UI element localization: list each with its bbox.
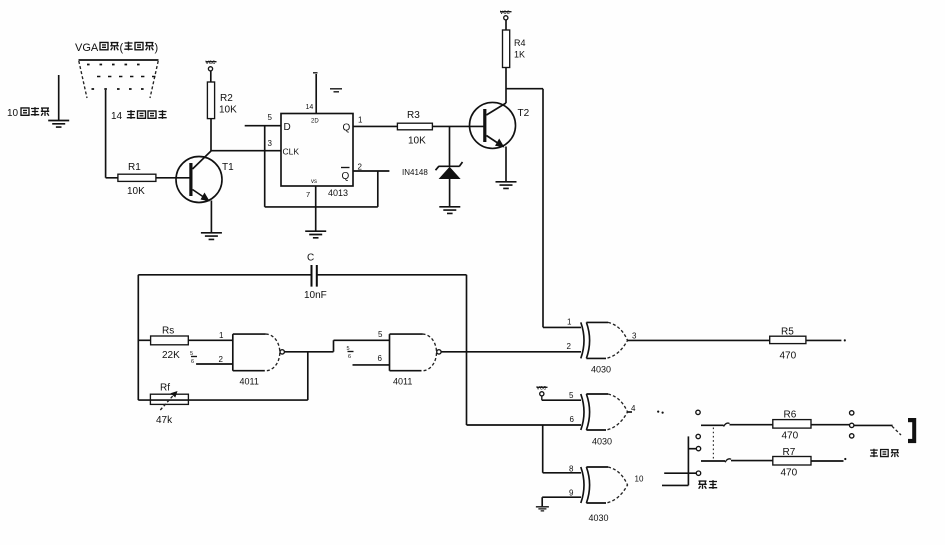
svg-text:6: 6 [378, 354, 383, 363]
svg-text:7: 7 [306, 190, 310, 199]
wire R7 right end [811, 458, 846, 461]
small mark 1/6 [190, 351, 197, 365]
resistor R7 470 [773, 447, 811, 479]
wire rail to Rs [138, 339, 150, 341]
power symbol [330, 89, 342, 92]
svg-text:470: 470 [781, 468, 798, 479]
resistor R1 10K [118, 162, 156, 197]
svg-text:3: 3 [268, 139, 273, 148]
wire 4013 pin7 to ground [315, 186, 317, 231]
pin 3 label [268, 139, 273, 148]
svg-text:vcc: vcc [206, 59, 217, 66]
svg-text:R7: R7 [783, 447, 796, 458]
wire R6 to right contacts [811, 424, 849, 426]
wire Qbar pin2 [353, 170, 389, 172]
svg-text:4030: 4030 [589, 513, 609, 523]
svg-text:4013: 4013 [328, 188, 348, 198]
svg-text:22K: 22K [162, 350, 180, 361]
resistor R2 10K [207, 82, 237, 119]
svg-text:T2: T2 [518, 108, 530, 119]
svg-text:9: 9 [569, 489, 574, 498]
wire Q pin1 to R3 [353, 125, 397, 127]
svg-text:R1: R1 [128, 162, 141, 173]
wire R1 to T1 base [156, 177, 190, 179]
svg-text:47k: 47k [156, 415, 173, 426]
svg-text:14: 14 [111, 111, 123, 122]
svg-text:1: 1 [567, 318, 572, 327]
wire bus tick to contact [688, 448, 696, 450]
svg-text:Q: Q [342, 171, 350, 182]
svg-text:5: 5 [569, 391, 574, 400]
power vcc [206, 59, 217, 82]
pin 8 label [569, 465, 574, 474]
pin 1 label [567, 318, 572, 327]
pin 2 label [219, 355, 224, 364]
svg-text:4011: 4011 [393, 377, 412, 387]
svg-text:vs: vs [311, 179, 317, 185]
wire R3 to T2 base [432, 125, 484, 127]
wire T1 emitter to ground [210, 201, 212, 233]
capacitor C 10nF [304, 253, 327, 302]
ground [48, 121, 69, 128]
resistor Rf 47k variable [150, 383, 188, 427]
diode D1 1N4148 [402, 126, 463, 206]
svg-text:470: 470 [780, 351, 797, 362]
ground [536, 507, 549, 511]
svg-text:vcc: vcc [537, 385, 548, 392]
wire XOR2 pin5 to vcc [542, 399, 581, 401]
wire gate2 pin6 [353, 364, 390, 366]
wire D pin 5 [245, 125, 281, 127]
svg-text:4030: 4030 [592, 437, 612, 447]
nand gate U2B 4011 [390, 334, 442, 386]
svg-text:6: 6 [191, 359, 194, 365]
pin 6 label [570, 415, 575, 424]
resistor Rs 22K [151, 326, 189, 362]
switch label [698, 480, 717, 489]
svg-text:10nF: 10nF [304, 290, 327, 301]
svg-text:D: D [284, 122, 291, 133]
svg-text:vcc: vcc [500, 9, 511, 16]
svg-text:10K: 10K [408, 136, 426, 147]
wire Rs to gate pin1 [188, 339, 233, 341]
svg-text:10: 10 [635, 475, 644, 484]
resistor R3 10K [397, 110, 432, 147]
pin 3 label [632, 332, 637, 341]
pin 10 label [635, 475, 644, 484]
wire pin10 to ground [58, 75, 60, 120]
svg-text:R4: R4 [514, 38, 526, 48]
wire switch bus [687, 436, 689, 485]
transistor T1 [176, 151, 234, 203]
switch S1 pole 1 [701, 423, 773, 426]
svg-text:Rf: Rf [160, 383, 170, 394]
wire C node down to XOR pin6 [467, 275, 582, 425]
LCD glasses electrode [908, 418, 916, 443]
svg-text:(: ( [120, 42, 124, 54]
xor gate U3B 4030 [581, 394, 628, 447]
svg-text:6: 6 [348, 354, 351, 360]
xor gate U3C 4030 [581, 467, 628, 523]
resistor R5 470 [770, 327, 806, 362]
pin 6 label [378, 354, 383, 363]
pin 5 label [268, 113, 273, 122]
wire feedback branch down [307, 352, 309, 400]
svg-text:5: 5 [268, 113, 273, 122]
wire XOR1 output to R5 [628, 339, 770, 341]
wire input to contact 4 [664, 472, 696, 474]
small mark 1/6 [347, 346, 354, 360]
wire XOR3 output [662, 484, 688, 486]
ground [439, 207, 460, 214]
wire gate1 output to gate2 pin5 [285, 340, 390, 352]
svg-text:1K: 1K [514, 50, 525, 60]
resistor R6 470 [773, 410, 811, 442]
xor gate U3A 4030 [581, 322, 628, 374]
svg-text:4011: 4011 [240, 377, 259, 387]
wire T2 collector to XOR pin1 [506, 89, 581, 328]
VGA pins row 2 [97, 76, 155, 78]
wire R2 to T1 collector / CLK [211, 119, 281, 151]
ground [305, 231, 326, 238]
svg-text:Q: Q [343, 123, 351, 134]
svg-text:4030: 4030 [591, 365, 611, 375]
svg-text:10: 10 [7, 108, 19, 119]
svg-text:2: 2 [358, 163, 363, 172]
pin 5 label [569, 391, 574, 400]
wire gate2 output to XOR1 pin2 [441, 351, 581, 353]
ground [201, 233, 222, 240]
switch linkage dotted [712, 428, 714, 459]
svg-text:1: 1 [358, 116, 363, 125]
svg-text:2D: 2D [311, 119, 319, 125]
svg-text:C: C [307, 253, 314, 264]
glasses label [870, 449, 899, 457]
ground [496, 182, 517, 189]
flip-flop U1 4013 [281, 104, 353, 199]
wire 4013 pin14 top [313, 73, 318, 114]
VGA connector J1 (VGA接口 显卡端) [75, 42, 159, 98]
svg-text:14: 14 [306, 104, 314, 111]
svg-text:2: 2 [567, 342, 572, 351]
pin 5 label [378, 330, 383, 339]
svg-text:6: 6 [570, 415, 575, 424]
power vcc [500, 9, 512, 30]
svg-text:T1: T1 [222, 162, 234, 173]
wire pin14 to R1 [106, 90, 118, 178]
pin 1 label [358, 116, 363, 125]
svg-text:R6: R6 [784, 410, 797, 421]
switch S1 pole 2 [701, 459, 773, 462]
svg-text:R2: R2 [220, 93, 233, 104]
node pin10 sync ground label [7, 107, 49, 119]
wire T2 emitter to ground [505, 147, 507, 182]
wire contact to glasses [854, 425, 901, 435]
svg-text:5: 5 [378, 330, 383, 339]
wire XOR3 pin9 to ground [542, 497, 581, 506]
switch contacts right [850, 411, 854, 438]
svg-text:VGA: VGA [75, 42, 99, 54]
svg-text:470: 470 [782, 431, 799, 442]
switch S1 contacts left [696, 410, 701, 475]
wire XOR2 pin6 branch to XOR3 pin8 [543, 425, 581, 473]
svg-text:8: 8 [569, 465, 574, 474]
wire R5 right [806, 339, 846, 341]
svg-text:10K: 10K [127, 186, 145, 197]
svg-text:R3: R3 [407, 110, 420, 121]
pin 2 label [567, 342, 572, 351]
pin 4 label [631, 404, 636, 413]
power vcc [537, 385, 548, 401]
svg-text:CLK: CLK [283, 147, 300, 157]
node pin14 vertical sync label [111, 110, 167, 122]
VGA pins row 1 [87, 64, 140, 66]
svg-text:R5: R5 [781, 327, 794, 338]
pin 9 label [569, 489, 574, 498]
svg-text:10K: 10K [219, 105, 237, 116]
pin 2 label [358, 163, 363, 172]
svg-text:1: 1 [219, 331, 224, 340]
svg-text:Rs: Rs [162, 326, 174, 337]
wire R4 to T2 collector [505, 68, 507, 104]
svg-text:IN4148: IN4148 [402, 168, 428, 177]
svg-text:): ) [155, 42, 159, 54]
wire gate pin2 [196, 363, 233, 365]
wire feedback Qbar to D [265, 126, 378, 207]
VGA pins row 3 [92, 88, 144, 90]
nand gate U2A 4011 [233, 334, 285, 386]
transistor T2 [470, 102, 530, 148]
svg-text:3: 3 [632, 332, 637, 341]
resistor R4 1K [503, 30, 526, 68]
wire Rf feedback line [138, 399, 307, 401]
svg-text:2: 2 [219, 355, 224, 364]
wire XOR2 output dots [628, 411, 664, 414]
wire oscillator top rail [138, 275, 466, 400]
pin 1 label [219, 331, 224, 340]
